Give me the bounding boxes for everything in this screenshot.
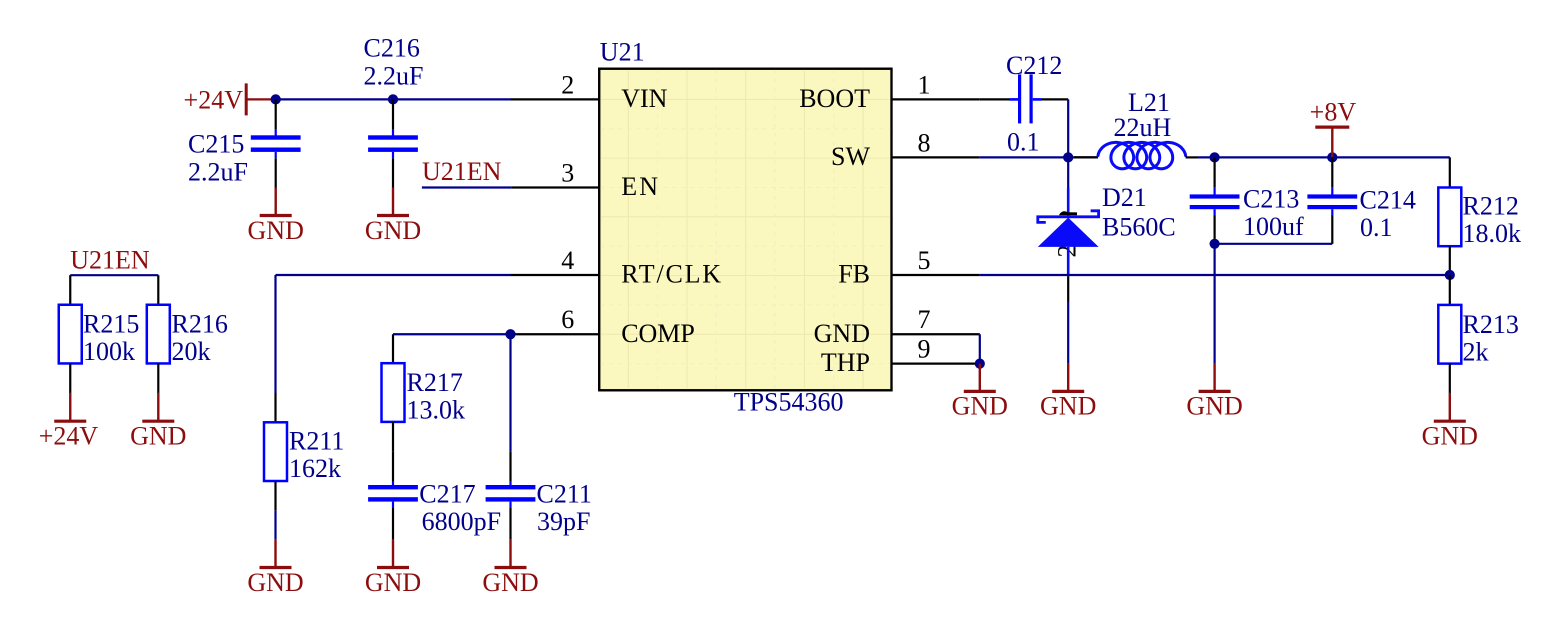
node junction at THP [975,359,985,369]
svg-text:9: 9 [918,335,931,364]
wire RT/CLK vertical to R211 [274,275,276,393]
svg-text:C213: C213 [1243,185,1299,214]
svg-text:C211: C211 [537,479,592,508]
node junction C213 bottom [1210,239,1220,249]
node junction at C214/+8V [1327,152,1337,162]
pin 4 RT/CLK stub [511,274,600,276]
wire BOOT corner down to SW node [1067,99,1069,157]
svg-text:100k: 100k [83,337,135,366]
wire RT/CLK horizontal [276,274,511,276]
svg-text:GND: GND [365,568,421,597]
svg-text:GND: GND [1422,422,1478,451]
power port +24V (top left, right-pointing bar) [184,83,276,115]
svg-text:THP: THP [821,348,870,377]
wire SW to L21 [980,156,1098,158]
node junction at C216 top [388,94,398,104]
wire D21 anode to GND [1067,276,1069,301]
ground GND below C213 [1186,364,1242,421]
svg-text:0.1: 0.1 [1360,213,1393,242]
svg-text:2.2uF: 2.2uF [364,62,424,91]
capacitor C213 [1190,157,1304,243]
ground GND below C211 [482,540,538,597]
wire C213/C214 bottom rail [1215,243,1333,245]
svg-text:5: 5 [918,246,931,275]
resistor R211 [264,393,344,510]
pin 7 GND stub [892,333,980,335]
node junction FB / R212 / R213 [1445,270,1455,280]
svg-text:3: 3 [561,159,574,188]
svg-text:COMP: COMP [621,319,695,348]
wire R212 corner vertical [1449,157,1451,187]
capacitor C217 [368,452,501,540]
node junction SW / D21 [1063,152,1073,162]
svg-text:GND: GND [482,568,538,597]
svg-text:C214: C214 [1360,186,1416,215]
svg-text:TPS54360: TPS54360 [734,387,844,416]
resistor R217 [382,334,466,451]
wire FB [980,274,1450,276]
ground GND below R213 [1422,393,1478,451]
svg-text:162k: 162k [289,454,341,483]
svg-text:C212: C212 [1006,51,1062,80]
ground GND below D21 [1040,364,1096,421]
node junction at C215 top [271,94,281,104]
ground GND below C217 [365,540,421,597]
svg-text:22uH: 22uH [1114,113,1172,142]
resistor R212 [1438,188,1521,276]
svg-text:GND: GND [952,392,1008,421]
capacitor C212 (boot) [980,51,1068,156]
svg-text:20k: 20k [172,337,211,366]
wire U21EN to EN [422,186,512,188]
svg-text:39pF: 39pF [537,507,590,536]
pin 9 THP stub [892,363,980,365]
svg-text:2k: 2k [1463,338,1489,367]
wire U21EN divider top [70,274,158,276]
svg-text:0.1: 0.1 [1007,127,1040,156]
ground GND below C215 [248,188,304,245]
svg-text:D21: D21 [1102,183,1147,212]
ground GND below R216 [130,393,186,451]
capacitor C211 [486,452,592,540]
wire SW junction down to D21 cathode pin [1067,157,1069,188]
svg-text:8: 8 [918,128,931,157]
svg-text:U21EN: U21EN [70,246,150,275]
resistor R216 [147,275,228,393]
svg-text:1: 1 [918,70,931,99]
svg-text:6800pF: 6800pF [422,507,501,536]
svg-text:+24V: +24V [39,422,99,451]
wire C213 to C214/+8V [1215,156,1333,158]
wire C213 bottom to GND [1213,244,1215,364]
op-amp U21 TPS54360 IC body [599,69,891,391]
ground GND below pins 7/9 [952,364,1008,421]
svg-text:R212: R212 [1463,192,1519,221]
svg-text:EN: EN [621,172,660,201]
pin 3 EN stub [512,186,600,188]
capacitor C215 [188,99,301,187]
svg-text:GND: GND [365,216,421,245]
svg-text:FB: FB [838,260,870,289]
wire L21 to C213 node [1197,156,1215,158]
wire +8V node to R212 corner [1332,156,1450,158]
power port +24V below R215 [39,393,99,451]
svg-text:SW: SW [831,142,870,171]
svg-text:GND: GND [1186,392,1242,421]
power port +8V [1310,98,1357,158]
ground GND below C216 [365,188,421,245]
svg-text:GND: GND [248,216,304,245]
resistor R215 [59,275,140,393]
svg-text:6: 6 [561,305,574,334]
svg-text:2: 2 [561,70,574,99]
pin 1 BOOT stub [892,98,980,100]
svg-text:U21: U21 [600,38,645,67]
svg-text:C216: C216 [364,34,420,63]
svg-text:+8V: +8V [1310,98,1357,127]
svg-text:R216: R216 [172,310,228,339]
diode D21 B560C (schottky, cathode up) [1038,183,1176,276]
pin 8 SW stub [892,156,980,158]
svg-text:+24V: +24V [184,85,244,114]
node junction at COMP / C211 [505,329,515,339]
ground GND below R211 [247,540,303,597]
pin 6 COMP stub [511,333,600,335]
svg-text:R215: R215 [83,310,139,339]
svg-text:R213: R213 [1463,310,1519,339]
svg-text:R217: R217 [407,368,463,397]
svg-text:13.0k: 13.0k [407,396,466,425]
svg-text:U21EN: U21EN [422,157,502,186]
wire pin7 to pin9 vertical [979,334,981,363]
wire R211 to GND [274,510,276,539]
svg-text:RT/CLK: RT/CLK [621,260,723,289]
svg-text:2.2uF: 2.2uF [188,157,248,186]
svg-text:GND: GND [130,422,186,451]
svg-text:R211: R211 [289,427,344,456]
capacitor C216 [364,34,424,188]
svg-text:BOOT: BOOT [799,84,870,113]
wire top rail +24V net [276,98,511,100]
svg-text:GND: GND [814,319,870,348]
svg-text:GND: GND [247,568,303,597]
svg-text:18.0k: 18.0k [1463,219,1522,248]
wire C211 column vertical [509,334,511,451]
svg-text:7: 7 [918,305,931,334]
svg-text:B560C: B560C [1102,213,1176,242]
svg-text:VIN: VIN [621,84,667,113]
svg-text:100uf: 100uf [1243,212,1304,241]
svg-text:GND: GND [1040,392,1096,421]
svg-text:C217: C217 [419,479,475,508]
pin 5 FB stub [892,274,980,276]
svg-text:4: 4 [561,246,574,275]
capacitor C214 [1307,157,1415,243]
inductor L21 coil [1098,88,1197,169]
resistor R213 [1438,275,1519,393]
svg-text:C215: C215 [188,130,244,159]
wire COMP horizontal [393,333,511,335]
pin 2 VIN stub [511,98,600,100]
node junction at C213 top [1210,152,1220,162]
